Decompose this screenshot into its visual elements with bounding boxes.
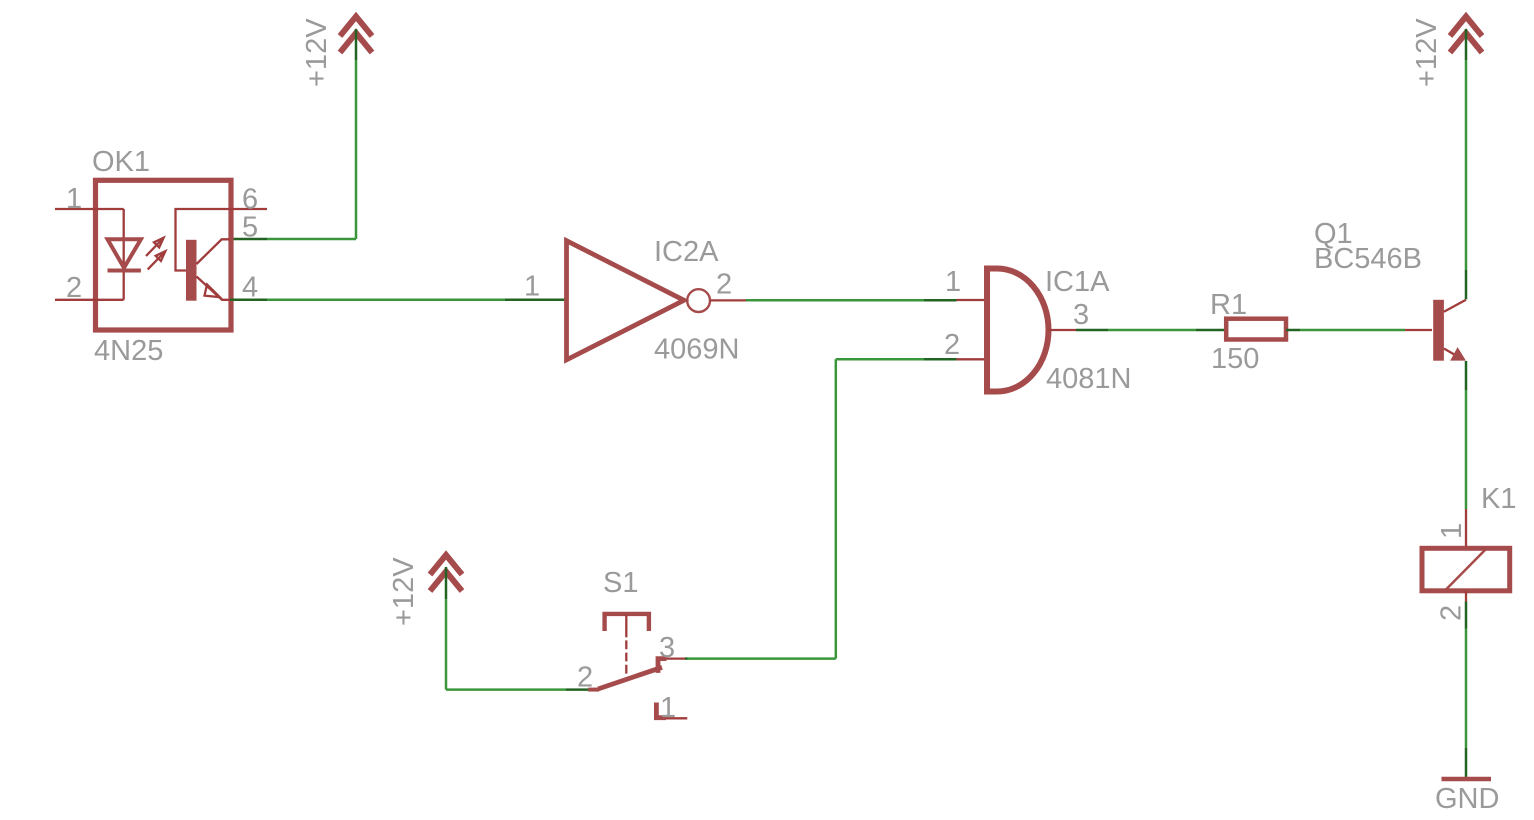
svg-text:R1: R1 — [1210, 289, 1247, 321]
Q1 emitter arrowhead — [1450, 347, 1466, 361]
S1 lever — [598, 667, 662, 689]
svg-text:5: 5 — [242, 212, 258, 244]
supply +12V symbol PS1 (above OK1) — [340, 17, 372, 53]
svg-text:2: 2 — [944, 329, 960, 361]
OK1 pin 2 lead — [55, 299, 124, 301]
svg-text:1: 1 — [524, 271, 540, 303]
wire K1 pin2 to GND — [1465, 602, 1468, 778]
OK1 emitter arrowhead — [205, 285, 220, 298]
svg-text:3: 3 — [659, 632, 675, 664]
optocoupler OK1 box — [96, 180, 232, 330]
svg-text:1: 1 — [945, 266, 961, 298]
supply +12V symbol PS3 (top right) — [1450, 17, 1482, 53]
svg-text:1: 1 — [66, 183, 82, 215]
wire OK1 pin4 to IC2A input — [230, 299, 565, 302]
S1 pin 1 contact corner — [656, 703, 666, 718]
svg-text:4081N: 4081N — [1046, 363, 1131, 395]
svg-text:2: 2 — [66, 272, 82, 304]
svg-text:1: 1 — [1436, 523, 1468, 539]
OK1 light arrow 2 — [148, 251, 166, 269]
supply +12V symbol PS2 (near S1) — [430, 555, 462, 591]
svg-text:1: 1 — [660, 692, 676, 724]
wire +12V PS1 down to OK1 pin5 — [230, 29, 356, 239]
svg-text:+12V: +12V — [388, 557, 420, 626]
S1 pin 2 contact stub — [588, 688, 599, 692]
wire +12V PS3 to Q1 collector — [1465, 29, 1468, 299]
svg-text:OK1: OK1 — [92, 146, 150, 178]
Q1 collector — [1444, 300, 1466, 312]
S1 pin 3 contact corner — [658, 659, 667, 673]
Q1 emitter — [1444, 349, 1456, 356]
svg-text:4069N: 4069N — [654, 334, 739, 366]
ground GND symbol — [1442, 777, 1492, 781]
S1 pin 1 stub — [666, 717, 687, 719]
OK1 pin 6 stub — [230, 208, 267, 210]
resistor R1 — [1226, 319, 1286, 340]
IC1A pin 1 stub — [957, 299, 988, 301]
IC1A pin 2 stub — [957, 358, 985, 360]
OK1 phototransistor base lead — [176, 209, 231, 271]
svg-text:IC1A: IC1A — [1045, 266, 1110, 298]
svg-text:2: 2 — [577, 662, 593, 694]
svg-text:K1: K1 — [1481, 483, 1516, 515]
wire IC2A output to IC1A pin1 — [746, 299, 957, 302]
OK1 phototransistor collector — [197, 239, 231, 264]
S1 pin 3 stub — [667, 657, 686, 659]
OK1 LED diode D — [108, 239, 141, 270]
inverter IC2A bubble — [687, 289, 710, 312]
Q1 base pin stub — [1405, 329, 1432, 331]
svg-text:2: 2 — [716, 269, 732, 301]
svg-text:4N25: 4N25 — [94, 335, 163, 367]
svg-text:GND: GND — [1435, 783, 1499, 815]
IC1A pin 3 stub — [1049, 329, 1077, 331]
svg-text:2: 2 — [1436, 605, 1468, 621]
wire +12V PS2 to S1 pin2 — [446, 567, 589, 690]
transistor Q1 base bar — [1433, 300, 1444, 361]
K1 pin 1 stub — [1465, 509, 1467, 548]
wire Q1 emitter to K1 pin1 — [1465, 361, 1468, 509]
svg-text:150: 150 — [1211, 343, 1259, 375]
K1 pin 2 stub — [1465, 591, 1467, 602]
relay coil K1 — [1422, 548, 1510, 591]
svg-text:3: 3 — [1073, 299, 1089, 331]
OK1 LED lead vertical — [123, 209, 125, 300]
svg-text:S1: S1 — [603, 567, 638, 599]
OK1 pin 1 lead — [55, 208, 124, 210]
AND gate IC1A body — [987, 269, 1049, 392]
svg-text:+12V: +12V — [1411, 18, 1443, 87]
svg-text:+12V: +12V — [301, 18, 333, 87]
wire R1 to Q1 base — [1286, 329, 1405, 332]
wire S1 pin3 to IC1A pin2 — [685, 359, 957, 658]
svg-text:BC546B: BC546B — [1314, 243, 1422, 275]
wire IC1A pin3 to R1 — [1076, 329, 1224, 332]
OK1 phototransistor base bar — [186, 240, 197, 301]
inverter IC2A triangle — [567, 241, 685, 360]
IC2A output pin stub — [710, 299, 746, 301]
S1 actuator link solid — [625, 615, 627, 637]
OK1 light arrow 1 — [146, 238, 164, 256]
S1 actuator link dashed — [625, 640, 627, 673]
OK1 phototransistor emitter — [197, 277, 231, 300]
switch S1 actuator bracket — [605, 614, 649, 631]
svg-text:IC2A: IC2A — [654, 236, 719, 268]
